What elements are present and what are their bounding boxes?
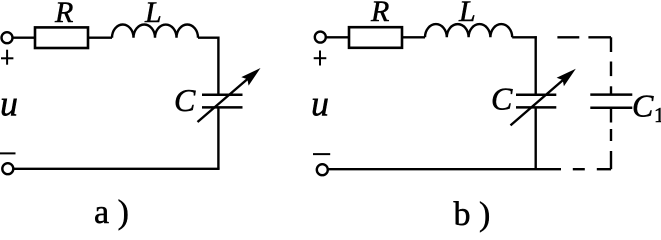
svg-text:a ): a ): [94, 194, 129, 231]
terminal top-left (b): [315, 32, 326, 43]
bottom wire (b): [328, 168, 561, 170]
minus sign (a): [0, 152, 16, 154]
wire capacitor C to bottom wire (b): [535, 107, 537, 169]
minus sign (b): [313, 153, 330, 155]
svg-text:b ): b ): [454, 196, 491, 233]
svg-text:1: 1: [654, 103, 661, 127]
capacitor C (a) top plate: [202, 93, 243, 96]
resistor R (a): [35, 27, 88, 48]
wire inductor to junction (b): [512, 36, 537, 38]
wire terminal to resistor (a): [13, 37, 35, 39]
inductor L (a): [112, 25, 198, 38]
svg-text:C: C: [491, 81, 513, 117]
dashed wire top: junction to C1 branch (b): [557, 36, 611, 38]
plus sign (a): [1, 50, 13, 65]
node junction top (b) / wire down to capacitor C: [535, 36, 537, 95]
svg-text:C: C: [632, 88, 654, 124]
wire resistor to inductor (a): [89, 37, 113, 39]
wire inductor to top-right corner (a): [198, 38, 218, 96]
variable capacitor arrow (b): [511, 69, 576, 126]
wire resistor to inductor (b): [403, 36, 426, 38]
dashed wire below C1 to bottom (b): [610, 108, 612, 170]
plus sign (b): [314, 51, 327, 66]
wire terminal to resistor (b): [327, 36, 350, 38]
svg-text:C: C: [174, 82, 196, 118]
svg-text:L: L: [458, 0, 476, 28]
terminal top-left (a): [2, 32, 13, 43]
terminal bottom-left (a): [2, 163, 13, 174]
wire capacitor to bottom wire (a): [217, 107, 219, 168]
variable capacitor arrow (a): [198, 68, 261, 122]
label C1: [632, 88, 661, 128]
svg-text:L: L: [144, 0, 162, 29]
capacitor C (b) top plate: [516, 93, 556, 96]
svg-text:u: u: [0, 84, 18, 124]
capacitor C (a) bottom plate: [202, 106, 243, 109]
bottom wire (a): [14, 168, 220, 170]
capacitor C1 top plate: [590, 93, 632, 96]
svg-text:u: u: [311, 84, 329, 124]
capacitor C1 bottom plate: [590, 106, 632, 109]
capacitor C (b) bottom plate: [516, 106, 556, 109]
inductor L (b): [425, 24, 512, 37]
svg-text:R: R: [370, 0, 389, 28]
terminal bottom-left (b): [317, 164, 328, 175]
svg-text:R: R: [54, 0, 73, 29]
dashed wire down right side to C1 (b): [610, 37, 612, 94]
dashed wire bottom: C1 branch back to junction (b): [573, 168, 611, 170]
resistor R (b): [349, 27, 402, 48]
